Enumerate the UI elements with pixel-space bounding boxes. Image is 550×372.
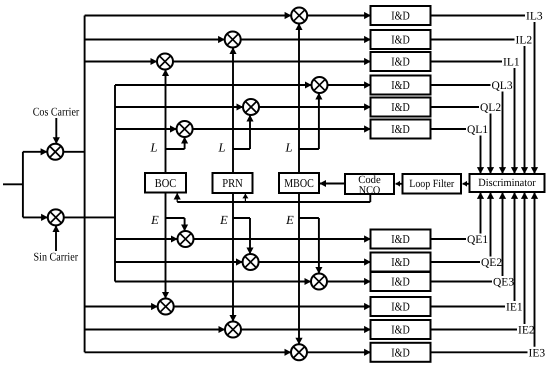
I&D block row 4 xyxy=(371,76,431,95)
wire PRN L-tap horizontal xyxy=(233,148,250,150)
wire IL1 to discriminator xyxy=(514,68,516,174)
svg-text:Cos Carrier: Cos Carrier xyxy=(33,105,80,119)
mixer M9 (MBOC-E x QE3) xyxy=(311,274,327,290)
wire BOC L-tap horizontal xyxy=(166,148,185,150)
wire Loop Filter to Code NCO xyxy=(396,183,403,185)
svg-text:E: E xyxy=(150,213,159,227)
wire row 11 left xyxy=(85,329,225,331)
wire QE2 to discriminator xyxy=(490,193,492,257)
block BOC xyxy=(145,173,186,193)
svg-text:L: L xyxy=(218,141,226,155)
wire IL2 to discriminator xyxy=(524,46,526,174)
mixer M5 (PRN-L x QL2) xyxy=(243,99,259,115)
wire row 2 left xyxy=(85,39,225,41)
svg-text:IE3: IE3 xyxy=(529,347,546,359)
wire row 10 to I&D xyxy=(174,306,371,308)
input signal stub xyxy=(3,183,23,185)
wire row 8 to I&D xyxy=(259,261,371,263)
input split wire xyxy=(22,152,24,218)
wire IE2 to discriminator xyxy=(524,193,526,325)
wire BOC code down xyxy=(165,193,167,298)
I&D block row 5 xyxy=(371,98,431,117)
svg-text:QL3: QL3 xyxy=(492,80,513,92)
svg-text:QL2: QL2 xyxy=(480,102,501,114)
svg-text:I&D: I&D xyxy=(391,55,410,69)
svg-text:L: L xyxy=(150,141,158,155)
wire Discriminator to Loop Filter xyxy=(463,183,470,185)
wire row 9 left xyxy=(115,281,311,283)
svg-text:I&D: I&D xyxy=(391,232,410,246)
svg-text:QE2: QE2 xyxy=(481,257,502,269)
wire row 3 to I&D xyxy=(173,61,371,63)
wire IE3 to discriminator xyxy=(534,193,536,347)
wire row 7 to I&D xyxy=(194,238,371,240)
block Discriminator xyxy=(470,174,545,192)
wire PRN code down xyxy=(232,193,234,321)
wire NCO feedback down xyxy=(369,194,371,202)
svg-text:I&D: I&D xyxy=(391,300,410,314)
mixer M4 (MBOC-L x QL3) xyxy=(312,77,328,93)
svg-text:IE2: IE2 xyxy=(518,325,535,337)
I&D block row 1 xyxy=(371,6,431,25)
svg-text:I&D: I&D xyxy=(391,122,410,136)
svg-text:L: L xyxy=(285,141,293,155)
I&D block row 12 xyxy=(371,343,431,362)
svg-text:I&D: I&D xyxy=(391,275,410,289)
mixer M11 (PRN x IE2) xyxy=(225,322,241,338)
wire row 11 to I&D xyxy=(241,329,371,331)
block PRN xyxy=(213,173,253,193)
cos carrier arrow xyxy=(55,118,57,144)
block Loop Filter xyxy=(403,174,462,194)
wire row 4 to I&D xyxy=(328,84,371,86)
wire sin mixer to Q bus xyxy=(64,216,115,218)
svg-text:IL2: IL2 xyxy=(516,35,533,47)
wire NCO feedback to PRN xyxy=(244,194,246,202)
wire row 5 left xyxy=(115,106,243,108)
wire IE2 output xyxy=(431,329,518,331)
wire NCO feedback to BOC xyxy=(176,193,178,202)
I&D block row 2 xyxy=(371,30,431,49)
wire row 6 left xyxy=(115,128,176,130)
wire MBOC code down xyxy=(298,193,300,344)
svg-text:I&D: I&D xyxy=(391,323,410,337)
wire IE1 to discriminator xyxy=(514,193,516,302)
I&D block row 6 xyxy=(371,120,431,139)
wire row 12 to I&D xyxy=(307,351,371,353)
wire QL3 output xyxy=(431,84,491,86)
wire MBOC code up xyxy=(298,24,300,173)
wire row 2 to I&D xyxy=(241,39,371,41)
mixer M8 (PRN-E x QE2) xyxy=(243,254,259,270)
svg-text:I&D: I&D xyxy=(391,33,410,47)
mixer M10 (BOC x IE1) xyxy=(158,299,174,315)
wire QL1 to discriminator xyxy=(480,136,482,174)
svg-text:QE1: QE1 xyxy=(467,234,488,246)
svg-text:I&D: I&D xyxy=(391,345,410,359)
svg-text:PRN: PRN xyxy=(222,176,243,190)
wire QE3 to discriminator xyxy=(502,193,504,277)
svg-text:E: E xyxy=(285,213,294,227)
wire to sin mixer xyxy=(23,216,48,218)
wire row 1 to I&D xyxy=(307,15,370,17)
wire MBOC E-tap horizontal xyxy=(299,217,319,219)
wire QL2 output xyxy=(431,106,480,108)
I&D block row 8 xyxy=(371,253,431,272)
wire row 1 left xyxy=(85,15,291,17)
svg-text:I&D: I&D xyxy=(391,255,410,269)
svg-text:Sin Carrier: Sin Carrier xyxy=(34,250,79,264)
wire IL1 output xyxy=(431,61,503,63)
I&D block row 11 xyxy=(371,320,431,339)
wire IE1 output xyxy=(431,306,506,308)
wire row 3 left xyxy=(85,61,157,63)
wire IL2 output xyxy=(431,39,515,41)
wire QL2 to discriminator xyxy=(490,114,492,174)
wire row 8 left xyxy=(115,261,242,263)
I bus vertical xyxy=(84,16,86,353)
wire PRN E-tap horizontal xyxy=(233,217,250,219)
svg-text:Discriminator: Discriminator xyxy=(478,177,536,189)
wire to cos mixer xyxy=(23,151,47,153)
svg-text:Loop Filter: Loop Filter xyxy=(409,178,454,190)
wire IL3 output xyxy=(431,15,526,17)
wire row 12 left xyxy=(85,351,291,353)
wire MBOC L-tap horizontal xyxy=(299,148,319,150)
wire row 5 to I&D xyxy=(259,106,371,108)
svg-text:QL1: QL1 xyxy=(467,124,488,136)
wire row 9 to I&D xyxy=(327,281,371,283)
svg-text:MBOC: MBOC xyxy=(284,176,314,190)
wire cos mixer to I bus xyxy=(64,151,85,153)
mixer M6 (BOC-L x QL1) xyxy=(177,121,193,137)
svg-text:I&D: I&D xyxy=(391,9,410,23)
wire MBOC L-tap up xyxy=(318,93,320,149)
wire PRN E-tap down xyxy=(249,218,251,254)
wire PRN code up xyxy=(232,48,234,173)
wire BOC E-tap horizontal xyxy=(166,217,185,219)
wire IL3 to discriminator xyxy=(534,22,536,174)
svg-text:IL3: IL3 xyxy=(526,11,543,23)
mixer M2 (PRN x IL2) xyxy=(225,32,241,48)
block Code NCO xyxy=(345,174,394,197)
svg-text:IE1: IE1 xyxy=(506,302,523,314)
wire row 4 left xyxy=(115,84,311,86)
svg-text:BOC: BOC xyxy=(155,176,177,190)
wire QE3 output xyxy=(431,281,493,283)
mixer sin (carrier Q) xyxy=(48,209,64,225)
mixer cos (carrier I) xyxy=(47,144,63,160)
wire QE1 output xyxy=(431,238,467,240)
wire QE1 to discriminator xyxy=(480,193,482,234)
wire IE3 output xyxy=(431,351,528,353)
svg-text:IL1: IL1 xyxy=(503,57,520,69)
wire NCO feedback horizontal xyxy=(177,201,370,203)
svg-text:I&D: I&D xyxy=(391,100,410,114)
I&D block row 7 xyxy=(371,230,431,249)
mixer M12 (MBOC x IE3) xyxy=(291,344,307,360)
wire QL1 output xyxy=(431,128,467,130)
Q bus vertical xyxy=(114,85,116,282)
wire MBOC E-tap down xyxy=(318,218,320,273)
mixer M7 (BOC-E x QE1) xyxy=(178,231,194,247)
svg-text:QE3: QE3 xyxy=(493,277,514,289)
svg-text:E: E xyxy=(219,213,228,227)
sin carrier arrow xyxy=(55,226,57,251)
wire BOC code up xyxy=(165,70,167,173)
wire Code NCO to MBOC xyxy=(320,183,345,185)
I&D block row 9 xyxy=(371,272,431,291)
svg-text:I&D: I&D xyxy=(391,78,410,92)
I&D block row 3 xyxy=(371,52,431,71)
wire row 6 to I&D xyxy=(193,128,371,130)
I&D block row 10 xyxy=(371,297,431,316)
block MBOC xyxy=(279,173,319,193)
mixer M3 (BOC x IL1) xyxy=(157,54,173,70)
wire QL3 to discriminator xyxy=(502,92,504,174)
wire PRN L-tap up xyxy=(249,115,251,149)
wire row 7 left xyxy=(115,238,177,240)
wire row 10 left xyxy=(85,306,158,308)
wire BOC E-tap down xyxy=(184,218,186,231)
mixer M1 (MBOC x IL3) xyxy=(291,8,307,24)
wire QE2 output xyxy=(431,261,481,263)
wire BOC L-tap up xyxy=(184,137,186,149)
